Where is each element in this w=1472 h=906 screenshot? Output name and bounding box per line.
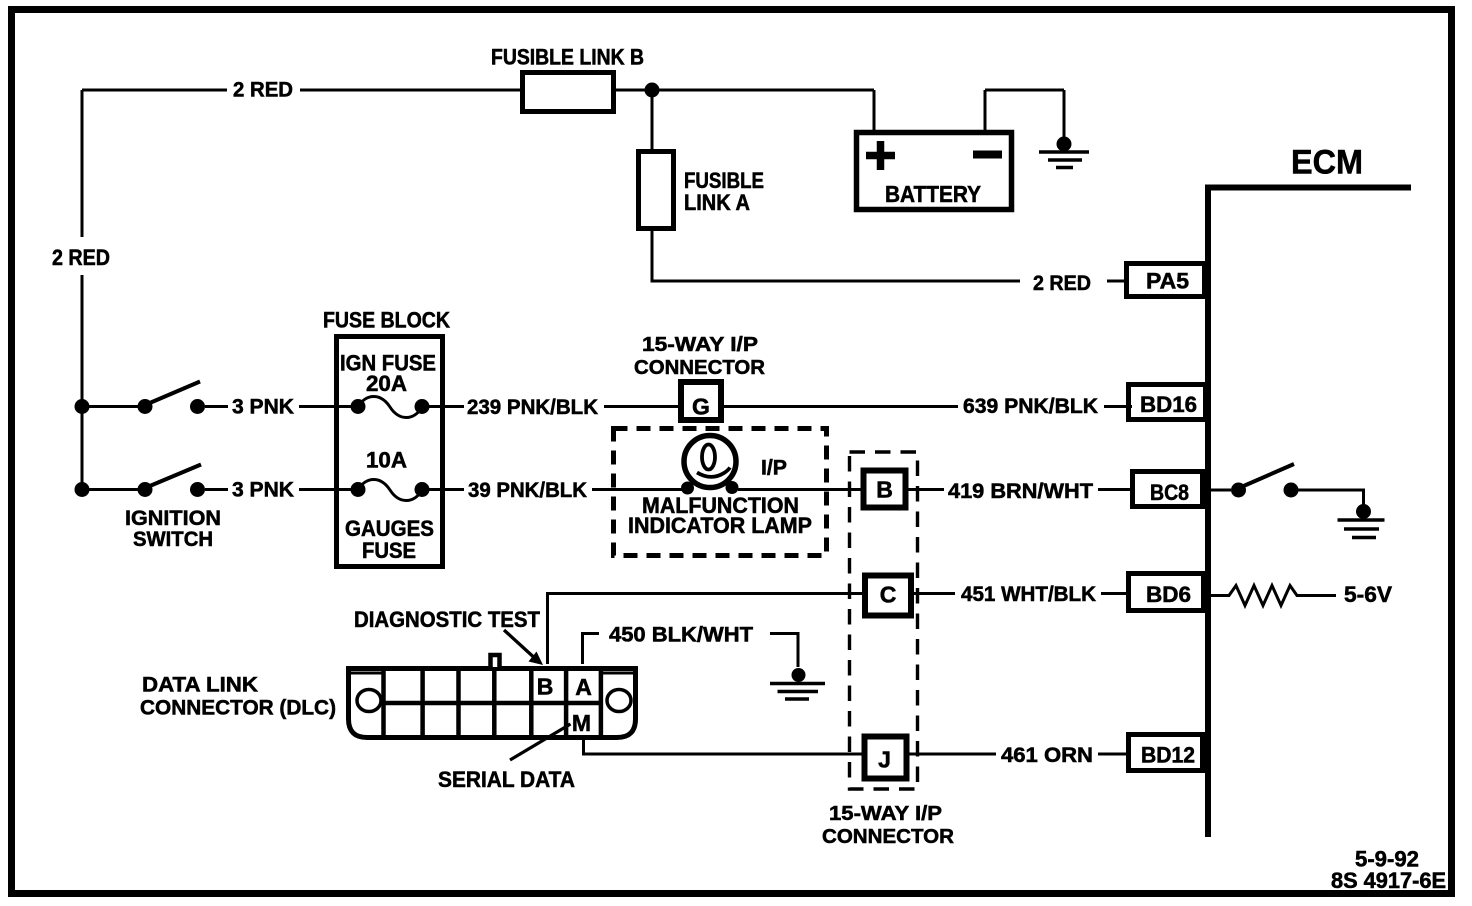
- junction ignition feed row 1: [75, 399, 90, 414]
- svg-text:20A: 20A: [366, 371, 407, 396]
- label 10A: [366, 448, 407, 473]
- connector pin G: [681, 382, 721, 420]
- DLC keying notch: [491, 655, 500, 667]
- svg-text:2 RED: 2 RED: [52, 245, 110, 270]
- label 2 RED (top run): [233, 79, 293, 102]
- wire J to BD12: [909, 753, 1130, 756]
- label INDICATOR LAMP: [628, 513, 812, 538]
- wire DLC pin A to ground (450 circuit): [583, 634, 799, 668]
- label I/P: [761, 457, 787, 480]
- connector pin J: [865, 737, 907, 779]
- label GAUGES: [345, 516, 434, 541]
- label 239 PNK/BLK: [467, 396, 598, 419]
- label FUSIBLE LINK A: [684, 168, 764, 215]
- svg-text:DATA LINK: DATA LINK: [142, 674, 258, 697]
- wire switch to fuse block row 2: [205, 488, 352, 491]
- svg-text:BC8: BC8: [1150, 480, 1189, 505]
- svg-text:ECM: ECM: [1291, 144, 1363, 182]
- wire junction to fusible link A: [651, 96, 654, 151]
- svg-text:419 BRN/WHT: 419 BRN/WHT: [948, 480, 1093, 503]
- svg-text:PA5: PA5: [1146, 269, 1189, 294]
- wire 2 RED top run: [82, 89, 522, 92]
- label DIAGNOSTIC TEST: [354, 607, 541, 632]
- svg-text:M: M: [572, 710, 591, 736]
- connector pin B: [864, 471, 906, 508]
- svg-text:2 RED: 2 RED: [1033, 272, 1091, 295]
- svg-text:SERIAL DATA: SERIAL DATA: [438, 767, 575, 792]
- svg-text:I/P: I/P: [761, 457, 787, 480]
- ignition switch pole 2: [138, 465, 206, 498]
- svg-text:39 PNK/BLK: 39 PNK/BLK: [468, 479, 587, 502]
- battery: [857, 133, 1012, 210]
- wire fuse to 39 label: [429, 488, 464, 491]
- wire BC8 to diagnostic switch: [1211, 489, 1231, 492]
- label 20A: [366, 371, 407, 396]
- svg-text:A: A: [575, 674, 592, 700]
- label document number 8S 4917-6E: [1331, 868, 1446, 893]
- diagnostic test arrow: [504, 630, 543, 665]
- label MALFUNCTION: [642, 493, 799, 518]
- serial data leader line: [510, 724, 571, 760]
- wire fuse to 239 label: [429, 405, 464, 408]
- pin box BD12: [1129, 735, 1203, 771]
- label 15-WAY I/P (bottom): [829, 802, 942, 825]
- data link connector body: [349, 669, 636, 738]
- fusible link B: [523, 73, 614, 112]
- svg-text:INDICATOR LAMP: INDICATOR LAMP: [628, 513, 812, 538]
- svg-text:LINK A: LINK A: [684, 190, 750, 215]
- malfunction indicator lamp: [681, 436, 739, 495]
- label 3 PNK row 1: [232, 396, 294, 419]
- svg-text:BD16: BD16: [1140, 392, 1197, 417]
- label BATTERY: [885, 181, 981, 207]
- svg-text:IGNITION: IGNITION: [125, 507, 221, 530]
- label IGNITION SWITCH: [125, 507, 221, 551]
- svg-text:C: C: [880, 582, 897, 608]
- label 39 PNK/BLK: [468, 479, 587, 502]
- svg-text:SWITCH: SWITCH: [133, 528, 213, 551]
- label 461 ORN: [1001, 744, 1093, 767]
- label ECM: [1291, 144, 1363, 182]
- label CONNECTOR (DLC): [140, 697, 336, 720]
- svg-text:451 WHT/BLK: 451 WHT/BLK: [961, 583, 1096, 606]
- svg-text:DIAGNOSTIC TEST: DIAGNOSTIC TEST: [354, 607, 541, 632]
- label CONNECTOR (bottom): [822, 825, 954, 848]
- label 3 PNK row 2: [232, 479, 294, 502]
- wire feed to ignition switch pole 2: [82, 488, 145, 491]
- ground at 450 BLK/WHT: [770, 668, 825, 699]
- label 451 WHT/BLK: [961, 583, 1096, 606]
- wire fusible link A to PA5: [652, 229, 1126, 281]
- svg-text:239 PNK/BLK: 239 PNK/BLK: [467, 396, 598, 419]
- 15-way I/P connector (dashed outline): [850, 452, 918, 789]
- svg-text:CONNECTOR: CONNECTOR: [634, 357, 766, 379]
- label A (DLC pin): [575, 674, 592, 700]
- label 639 PNK/BLK: [963, 395, 1098, 418]
- wire G to BD16: [724, 405, 1132, 408]
- wire 39 label to lamp: [592, 488, 682, 491]
- pin box PA5: [1127, 264, 1205, 297]
- DLC mounting hole right: [607, 690, 631, 712]
- DLC pin grid: [384, 666, 602, 740]
- label DATA LINK: [142, 674, 258, 697]
- svg-text:BD12: BD12: [1141, 743, 1195, 768]
- label date 5-9-92: [1355, 847, 1419, 872]
- pin box BC8: [1133, 472, 1203, 507]
- svg-text:FUSE: FUSE: [362, 538, 416, 563]
- svg-text:461 ORN: 461 ORN: [1001, 744, 1093, 767]
- label M (DLC pin): [572, 710, 591, 736]
- svg-text:5-6V: 5-6V: [1344, 582, 1392, 607]
- fuse GAUGES 10A: [351, 480, 430, 501]
- wire diagnostic switch to ground: [1298, 490, 1364, 505]
- ground at diagnostic switch: [1338, 504, 1385, 538]
- connector pin C: [865, 576, 911, 616]
- wire B to BC8: [908, 488, 1134, 491]
- label 5-6V: [1344, 582, 1392, 607]
- junction node at fusible link A tap: [645, 83, 660, 98]
- wire lamp to connector pin B: [738, 488, 863, 491]
- resistor at BD6: [1211, 586, 1336, 606]
- svg-text:15-WAY I/P: 15-WAY I/P: [642, 334, 758, 356]
- svg-text:2 RED: 2 RED: [233, 79, 293, 102]
- label 15-WAY I/P (top): [642, 334, 758, 356]
- wire C to BD6: [914, 592, 1130, 595]
- ECM block outline: [1205, 185, 1411, 838]
- pin box BD16: [1129, 385, 1206, 420]
- wire DLC pin M to connector pin J: [584, 740, 865, 754]
- label 2 RED (at PA5): [1033, 272, 1091, 295]
- DLC mounting hole left: [357, 690, 381, 712]
- svg-text:BATTERY: BATTERY: [885, 181, 981, 207]
- wire switch to fuse block row 1: [205, 405, 352, 408]
- svg-text:FUSIBLE LINK B: FUSIBLE LINK B: [491, 45, 644, 70]
- svg-text:CONNECTOR: CONNECTOR: [822, 825, 954, 848]
- label IGN FUSE: [340, 351, 436, 376]
- svg-text:450 BLK/WHT: 450 BLK/WHT: [609, 624, 753, 647]
- svg-text:15-WAY I/P: 15-WAY I/P: [829, 802, 942, 825]
- label SERIAL DATA: [438, 767, 575, 792]
- pin box BD6: [1129, 574, 1204, 611]
- svg-text:B: B: [876, 477, 893, 503]
- svg-text:B: B: [537, 674, 554, 700]
- svg-text:639 PNK/BLK: 639 PNK/BLK: [963, 395, 1098, 418]
- svg-text:J: J: [878, 747, 891, 773]
- diagnostic switch at BC8: [1231, 464, 1299, 498]
- battery plus terminal: [866, 141, 895, 170]
- wire battery negative to ground: [985, 90, 1064, 140]
- wire 2 RED feed (left vertical): [81, 90, 84, 490]
- label 450 BLK/WHT: [609, 624, 753, 647]
- malfunction indicator lamp housing (dashed): [614, 429, 827, 556]
- wire fusible link B to battery: [614, 89, 874, 92]
- svg-text:3 PNK: 3 PNK: [232, 479, 294, 502]
- fuse IGN 20A: [351, 397, 430, 418]
- svg-text:G: G: [692, 394, 710, 420]
- wire 239 label to connector G: [604, 405, 680, 408]
- svg-text:FUSE BLOCK: FUSE BLOCK: [323, 308, 450, 333]
- label FUSIBLE LINK B: [491, 45, 644, 70]
- label FUSE BLOCK: [323, 308, 450, 333]
- wire feed to ignition switch pole 1: [82, 405, 145, 408]
- fusible link A: [639, 152, 674, 229]
- ground at battery: [1039, 137, 1089, 168]
- junction ignition feed row 2: [75, 482, 90, 497]
- svg-text:BD6: BD6: [1146, 582, 1191, 607]
- label CONNECTOR (top): [634, 357, 766, 379]
- fuse block box: [337, 337, 443, 567]
- svg-text:3 PNK: 3 PNK: [232, 396, 294, 419]
- ignition switch pole 1: [138, 382, 206, 415]
- svg-text:CONNECTOR (DLC): CONNECTOR (DLC): [140, 697, 336, 720]
- label FUSE: [362, 538, 416, 563]
- wire DLC pin B to connector pin C: [548, 594, 865, 665]
- label B (DLC pin): [537, 674, 554, 700]
- label 2 RED (vertical feed): [52, 245, 110, 270]
- battery minus terminal: [973, 151, 1002, 159]
- DLC cap inner lines: [351, 672, 633, 675]
- svg-text:10A: 10A: [366, 448, 407, 473]
- label 419 BRN/WHT: [948, 480, 1093, 503]
- wire battery positive: [873, 90, 876, 132]
- svg-text:8S 4917-6E: 8S 4917-6E: [1331, 868, 1446, 893]
